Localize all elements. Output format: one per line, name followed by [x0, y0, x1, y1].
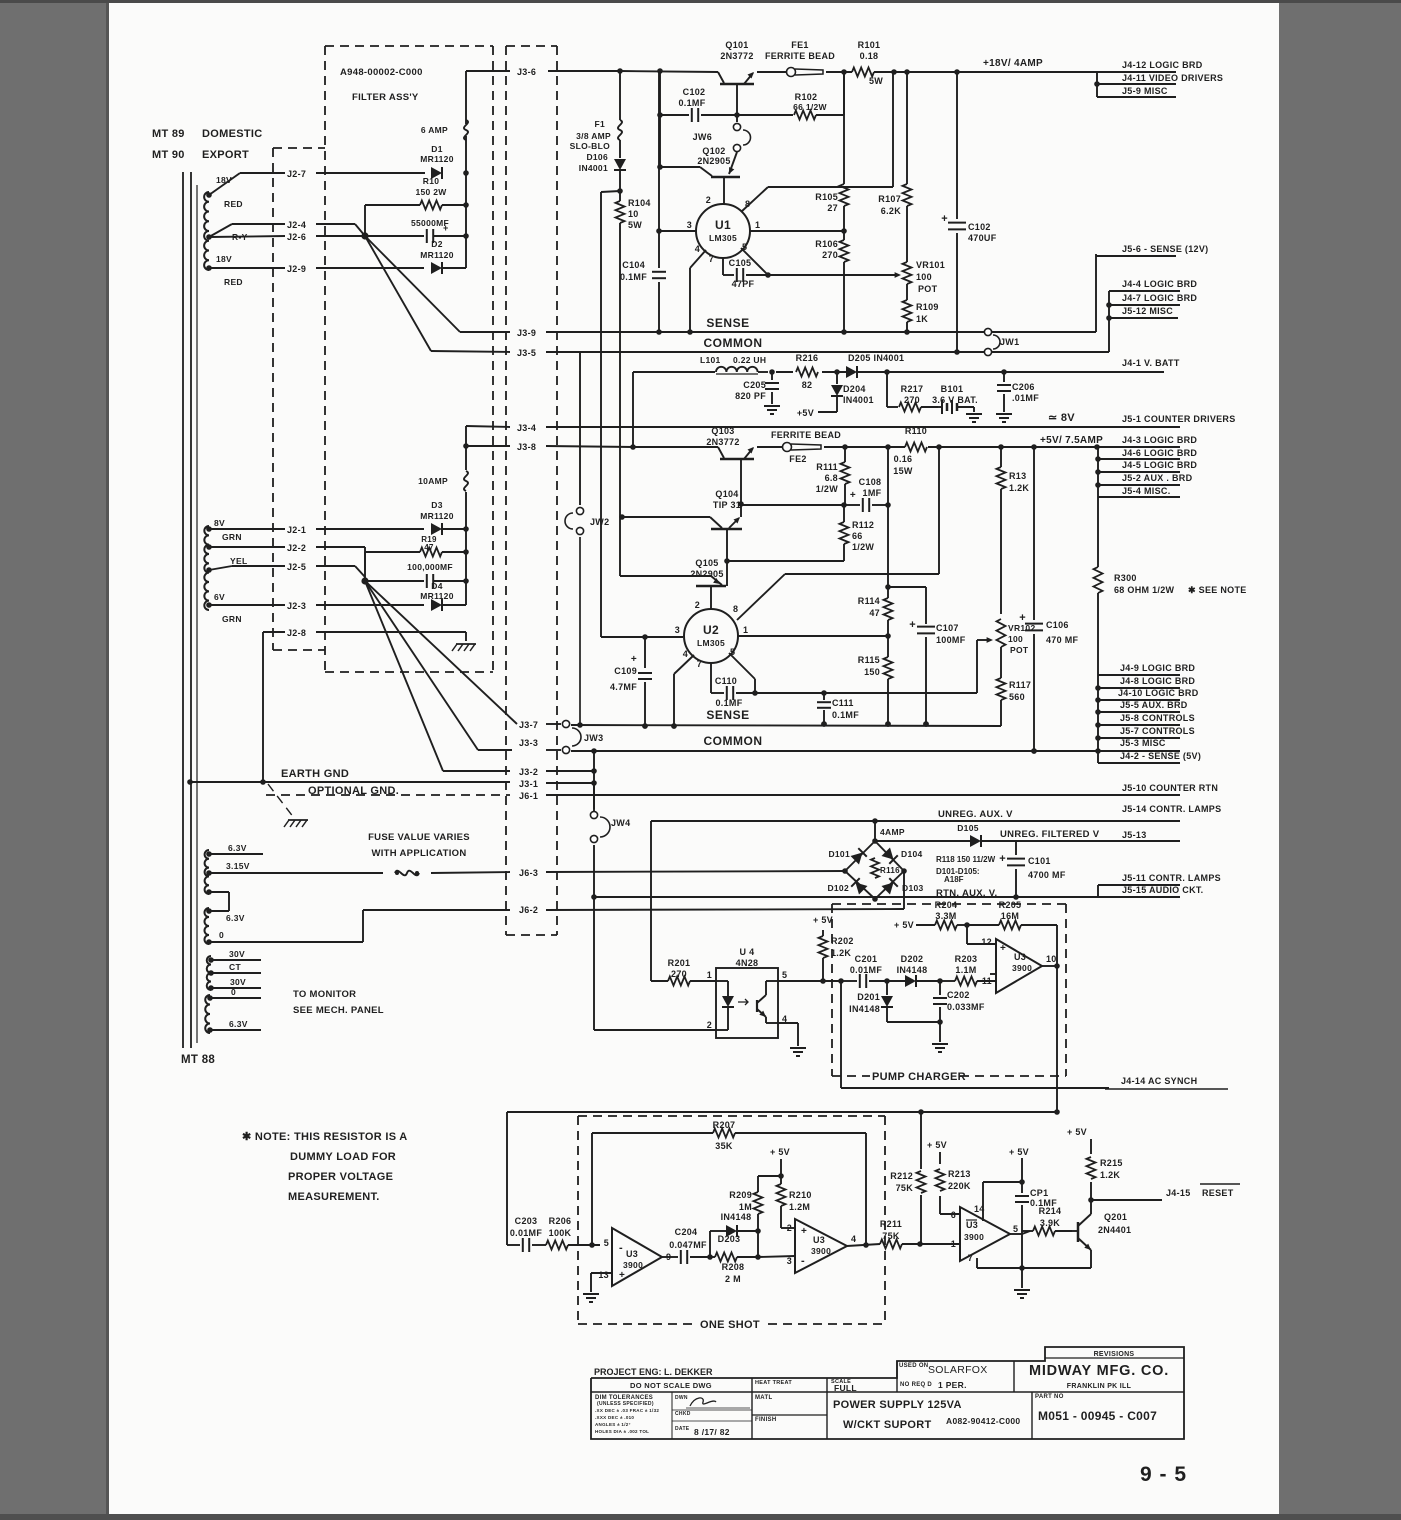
- wire U3d pin14: [983, 1179, 1025, 1221]
- svg-text:5: 5: [1013, 1224, 1018, 1234]
- label 6.3V b: [226, 913, 245, 923]
- svg-text:IN4148: IN4148: [721, 1212, 752, 1222]
- wire Q102 chain vertical: [659, 71, 661, 167]
- svg-text:10AMP: 10AMP: [418, 476, 448, 486]
- svg-text:270: 270: [822, 250, 838, 260]
- wire J3 gnd bracket: [591, 751, 597, 813]
- svg-text:75K: 75K: [882, 1231, 900, 1241]
- svg-text:3.9K: 3.9K: [1040, 1218, 1060, 1228]
- inductor L101 0.22UH: [700, 355, 766, 374]
- chassis ground earth: [268, 784, 308, 827]
- label A948-00002-C000: [340, 67, 423, 78]
- svg-text:REVISIONS: REVISIONS: [1094, 1351, 1135, 1358]
- label MT 90 EXPORT: [152, 149, 249, 161]
- svg-text:OPTIONAL GND.: OPTIONAL GND.: [308, 785, 399, 797]
- wire UNREG AUX V: [651, 818, 1180, 824]
- diode D201 IN4148: [849, 981, 893, 1022]
- wire junction to J3-3: [365, 581, 478, 750]
- label J2-2: [287, 543, 306, 553]
- title block: [591, 1347, 1184, 1439]
- transistor Q101 2N3772: [718, 40, 754, 84]
- svg-text:R117: R117: [1009, 680, 1031, 690]
- label J4-10 LOGIC BRD: [1118, 688, 1199, 698]
- label J2-3: [287, 601, 306, 611]
- resistor R106 270: [815, 231, 848, 335]
- label J2-9: [287, 264, 306, 274]
- svg-text:COMMON: COMMON: [704, 336, 763, 350]
- resistor R107 6.2K: [878, 72, 911, 262]
- wire Q101 base: [736, 84, 738, 122]
- svg-text:6.3V: 6.3V: [229, 1019, 248, 1029]
- svg-text:J4-4 LOGIC BRD: J4-4 LOGIC BRD: [1122, 279, 1197, 289]
- svg-text:COMMON: COMMON: [704, 734, 763, 748]
- capacitor C204 0.047MF: [669, 1227, 713, 1264]
- svg-text:3/8 AMP: 3/8 AMP: [576, 131, 611, 141]
- svg-text:J5-12 MISC: J5-12 MISC: [1122, 306, 1173, 316]
- wire U2 pin4: [671, 655, 694, 729]
- wire lower bracket: [1095, 675, 1180, 763]
- label J5-11 CONTR.LAMPS: [1122, 873, 1221, 883]
- node Q102 chain top: [657, 68, 663, 74]
- transformer T1 secondary winding (18V): [204, 192, 212, 271]
- label J3-4: [517, 423, 536, 433]
- svg-text:J3-3: J3-3: [519, 738, 538, 748]
- svg-text:8 /17/ 82: 8 /17/ 82: [694, 1427, 730, 1437]
- capacitor C205 820PF: [735, 372, 780, 414]
- svg-text:C206: C206: [1012, 382, 1035, 392]
- svg-text:U3: U3: [626, 1249, 638, 1259]
- svg-text:TO MONITOR: TO MONITOR: [293, 989, 356, 1000]
- svg-text:D205 IN4001: D205 IN4001: [848, 353, 904, 363]
- svg-text:220K: 220K: [948, 1181, 971, 1191]
- svg-text:2: 2: [706, 195, 711, 205]
- svg-text:IN4001: IN4001: [579, 163, 608, 173]
- wire J6-1 / J5-10 row: [266, 794, 1180, 796]
- resistor R201 270: [651, 958, 716, 986]
- label SEE MECH PANEL: [293, 1005, 384, 1016]
- wire J3-2 row: [443, 770, 594, 772]
- label +5V/7.5AMP: [1040, 435, 1103, 446]
- svg-text:J5-10 COUNTER RTN: J5-10 COUNTER RTN: [1122, 783, 1218, 793]
- svg-text:1/2W: 1/2W: [816, 484, 838, 494]
- svg-text:2: 2: [695, 600, 700, 610]
- jumper JW6: [693, 123, 751, 151]
- capacitor C108 1MF: [846, 477, 891, 512]
- label EARTH GND: [281, 768, 349, 780]
- svg-text:-: -: [801, 1255, 805, 1267]
- label J3-7: [519, 720, 538, 730]
- label R-Y: [232, 232, 248, 242]
- wire +5V bracket: [1094, 444, 1180, 497]
- svg-text:270: 270: [904, 395, 920, 405]
- svg-text:3: 3: [675, 625, 680, 635]
- resistor R10: [365, 176, 466, 236]
- wire J4-11 bracket: [1094, 72, 1176, 97]
- svg-text:PUMP CHARGER: PUMP CHARGER: [872, 1071, 966, 1083]
- bridge rectifier D101-D104: [842, 838, 907, 902]
- svg-text:82: 82: [802, 380, 813, 390]
- svg-text:SENSE: SENSE: [706, 316, 749, 330]
- wire U1 pin1: [750, 228, 847, 234]
- resistor R208 2M: [710, 1253, 761, 1285]
- svg-text:ANGLES ± 1/2°: ANGLES ± 1/2°: [595, 1422, 631, 1427]
- svg-text:RED: RED: [224, 199, 243, 209]
- svg-text:B101: B101: [941, 384, 964, 394]
- svg-text:1.2K: 1.2K: [1009, 483, 1029, 493]
- svg-text:6.3V: 6.3V: [228, 843, 247, 853]
- svg-text:2: 2: [787, 1223, 792, 1233]
- wire SENSE line: [460, 329, 984, 335]
- label 8V GRN: [214, 518, 242, 542]
- svg-text:C109: C109: [614, 666, 637, 676]
- svg-text:R107: R107: [878, 194, 901, 204]
- svg-text:Q105: Q105: [695, 558, 718, 568]
- svg-text:6: 6: [951, 1210, 956, 1220]
- svg-text:1.1M: 1.1M: [955, 965, 976, 975]
- resistor R104 10 5W: [616, 191, 651, 516]
- svg-text:J6-1: J6-1: [519, 791, 538, 801]
- label J3-2: [519, 767, 538, 777]
- svg-text:FULL: FULL: [834, 1383, 857, 1393]
- label J4-11 VIDEO DRIVERS: [1122, 73, 1223, 83]
- wire U4 pin5 row: [778, 978, 844, 984]
- wire junction to J3-2: [365, 581, 443, 771]
- resistor R115 150: [858, 636, 893, 727]
- svg-text:POT: POT: [1010, 645, 1029, 655]
- svg-text:A948-00002-C000: A948-00002-C000: [340, 67, 423, 78]
- svg-text:CP1: CP1: [1030, 1188, 1048, 1198]
- svg-text:J3-6: J3-6: [517, 67, 536, 77]
- svg-text:MEASUREMENT.: MEASUREMENT.: [288, 1191, 380, 1203]
- svg-text:66 1/2W: 66 1/2W: [793, 102, 827, 112]
- wire J2-8: [263, 632, 466, 641]
- wire 8V row J3-4: [466, 426, 1180, 427]
- label J5-15 AUDIO CKT: [1122, 885, 1203, 895]
- label J3-6: [517, 67, 536, 77]
- svg-text:FUSE VALUE VARIES: FUSE VALUE VARIES: [368, 832, 470, 843]
- svg-text:J5-7 CONTROLS: J5-7 CONTROLS: [1120, 726, 1195, 736]
- svg-text:4: 4: [851, 1234, 856, 1244]
- svg-text:+: +: [1019, 612, 1026, 624]
- resistor R205 16M: [967, 900, 1057, 930]
- label J2-8: [287, 628, 306, 638]
- label J3-5: [517, 348, 536, 358]
- label TO MONITOR: [293, 989, 356, 1000]
- svg-text:D202: D202: [901, 954, 924, 964]
- svg-text:U1: U1: [715, 218, 731, 232]
- svg-text:100,000MF: 100,000MF: [407, 562, 453, 572]
- svg-text:✱ NOTE: THIS RESISTOR IS A: ✱ NOTE: THIS RESISTOR IS A: [242, 1131, 408, 1143]
- resistor R214 3.9K: [1022, 1206, 1072, 1236]
- label J4-14 AC SYNCH: [1105, 1076, 1228, 1089]
- wire VR102 wiper: [824, 637, 993, 693]
- wire one shot +5V: [770, 1147, 790, 1179]
- svg-text:UNREG. FILTERED V: UNREG. FILTERED V: [1000, 829, 1100, 840]
- svg-text:C106: C106: [1046, 620, 1069, 630]
- svg-text:R111: R111: [816, 462, 838, 472]
- svg-text:100: 100: [916, 272, 932, 282]
- resistor R114 47: [858, 587, 893, 639]
- left dashed box: [273, 148, 325, 650]
- svg-text:J5-13: J5-13: [1122, 830, 1147, 840]
- resistor R102 66 1/2W: [739, 69, 847, 119]
- svg-text:D204: D204: [843, 384, 866, 394]
- svg-text:18V: 18V: [216, 254, 232, 264]
- label J2-6: [287, 232, 306, 242]
- wire UNREG to R201: [650, 821, 652, 981]
- svg-text:+5V/ 7.5AMP: +5V/ 7.5AMP: [1040, 435, 1103, 446]
- svg-text:3.15V: 3.15V: [226, 861, 250, 871]
- transistor Q201 2N4401: [1072, 1200, 1131, 1268]
- diode D3 MR1120: [420, 500, 469, 535]
- label +18V / 4AMP: [983, 58, 1043, 69]
- svg-text:-: -: [619, 1242, 623, 1254]
- wire U3b output: [662, 1256, 678, 1258]
- label SENSE: [706, 316, 749, 330]
- wire U2 pin8 to R110: [737, 447, 939, 620]
- svg-text:+: +: [443, 223, 449, 233]
- svg-text:3: 3: [687, 220, 692, 230]
- svg-text:J4-2 - SENSE (5V): J4-2 - SENSE (5V): [1120, 751, 1201, 761]
- svg-text:DO NOT SCALE DWG: DO NOT SCALE DWG: [630, 1381, 712, 1390]
- svg-text:C203: C203: [515, 1216, 538, 1226]
- label J4-8 LOGIC BRD: [1120, 676, 1195, 686]
- capacitor C1 55000MF: [368, 218, 466, 243]
- wire rail Q101 to FE1: [757, 71, 786, 73]
- transformer T3 winding 0/6.3: [205, 995, 213, 1033]
- label 30V b: [211, 977, 261, 988]
- svg-text:+ 5V: + 5V: [1009, 1147, 1029, 1157]
- svg-text:2: 2: [707, 1020, 712, 1030]
- label J3-3: [519, 738, 538, 748]
- label J5-14 CONTR. LAMPS: [1122, 804, 1221, 814]
- node junction A (filter input): [361, 232, 368, 239]
- svg-text:L101: L101: [700, 355, 721, 365]
- svg-text:R207: R207: [713, 1120, 736, 1130]
- svg-text:0.16: 0.16: [894, 454, 913, 464]
- capacitor CP1 0.1MF: [1015, 1182, 1057, 1271]
- svg-text:F1: F1: [594, 119, 605, 129]
- svg-text:JW3: JW3: [584, 733, 603, 743]
- svg-text:560: 560: [1009, 692, 1025, 702]
- label J4-15 RESET: [1166, 1184, 1240, 1198]
- svg-text:MR1120: MR1120: [420, 154, 453, 164]
- label J5-13 AUDIO CKT: [1122, 830, 1147, 840]
- svg-text:GRN: GRN: [222, 614, 242, 624]
- pin 4 label U2: [683, 649, 688, 659]
- resistor R212 75K: [890, 1112, 925, 1244]
- svg-text:47PF: 47PF: [732, 279, 755, 289]
- svg-text:8V: 8V: [214, 518, 225, 528]
- pin 4 label U1: [695, 244, 700, 254]
- svg-text:MT 90: MT 90: [152, 149, 185, 161]
- svg-text:2N2905: 2N2905: [697, 156, 730, 166]
- svg-text:PROPER VOLTAGE: PROPER VOLTAGE: [288, 1171, 393, 1183]
- wire +5V rail: [824, 444, 1096, 450]
- svg-text:47: 47: [869, 608, 880, 618]
- svg-text:R110: R110: [905, 426, 927, 436]
- svg-text:1: 1: [951, 1239, 956, 1249]
- pin 2 label U2: [695, 600, 700, 610]
- pin 3 label U1: [687, 220, 692, 230]
- svg-text:J5-8 CONTROLS: J5-8 CONTROLS: [1120, 713, 1195, 723]
- node J3-4 bus corner: [465, 445, 467, 447]
- wire U1 pin7 / capacitor C105 47PF: [723, 258, 768, 289]
- svg-text:C101: C101: [1028, 856, 1051, 866]
- wire J2-2: [209, 547, 365, 570]
- svg-text:5: 5: [604, 1238, 609, 1248]
- svg-text:MT 88: MT 88: [181, 1054, 215, 1066]
- svg-text:7: 7: [697, 659, 702, 669]
- wire 6.3 link: [209, 892, 229, 911]
- svg-text:0.1MF: 0.1MF: [620, 272, 647, 282]
- svg-text:4AMP: 4AMP: [880, 827, 905, 837]
- J3 connector dashed column: [506, 46, 557, 935]
- wire C202 D201 gnd: [887, 1019, 948, 1052]
- svg-text:WITH APPLICATION: WITH APPLICATION: [371, 848, 466, 859]
- svg-text:12: 12: [981, 937, 992, 947]
- svg-text:R202: R202: [831, 936, 854, 946]
- svg-text:270: 270: [671, 969, 687, 979]
- svg-text:J6-2: J6-2: [519, 905, 538, 915]
- svg-text:R112: R112: [852, 520, 874, 530]
- wire AC synch drop: [841, 981, 1109, 1088]
- wire L101 feed: [632, 372, 634, 447]
- svg-text:C104: C104: [622, 260, 645, 270]
- svg-text:FE2: FE2: [789, 454, 806, 464]
- svg-text:R208: R208: [722, 1262, 745, 1272]
- resistor R206 100K: [546, 1216, 600, 1250]
- wire J5-9 line: [1097, 96, 1176, 98]
- wire Q104 to Q105: [724, 529, 730, 586]
- svg-text:C201: C201: [855, 954, 878, 964]
- svg-text:+: +: [801, 1226, 807, 1237]
- svg-text:U 4: U 4: [740, 947, 755, 957]
- svg-text:A082-90412-C000: A082-90412-C000: [946, 1416, 1020, 1426]
- svg-text:VR101: VR101: [916, 260, 945, 270]
- svg-text:U3: U3: [813, 1235, 825, 1245]
- svg-text:J3-5: J3-5: [517, 348, 536, 358]
- transistor Q105 2N2905: [621, 558, 726, 609]
- svg-text:1: 1: [743, 625, 748, 635]
- svg-text:R216: R216: [796, 353, 819, 363]
- capacitor C101 4700MF: [999, 841, 1066, 900]
- svg-text:+: +: [909, 619, 916, 631]
- svg-text:100: 100: [1008, 634, 1023, 644]
- svg-text:C105: C105: [729, 258, 752, 268]
- pin 8 label U1: [745, 199, 750, 209]
- svg-text:3.6 V BAT.: 3.6 V BAT.: [932, 395, 978, 405]
- svg-text:J2-9: J2-9: [287, 264, 306, 274]
- svg-text:D2: D2: [431, 239, 442, 249]
- svg-text:W/CKT SUPORT: W/CKT SUPORT: [843, 1419, 932, 1431]
- label approx 8V: [1048, 412, 1075, 424]
- svg-text:+: +: [619, 1270, 625, 1281]
- label J3-9: [517, 328, 536, 338]
- label J4-1 V.BATT: [1122, 358, 1180, 368]
- svg-text:0.1MF: 0.1MF: [832, 710, 859, 720]
- svg-text:C204: C204: [675, 1227, 698, 1237]
- wire bridge right to J6-2: [903, 871, 905, 909]
- capacitor C202 0.033MF: [933, 981, 985, 1022]
- svg-text:R104: R104: [628, 198, 651, 208]
- label 18V RED top: [216, 175, 243, 209]
- wire one shot top: [507, 1109, 1057, 1115]
- svg-text:D106: D106: [586, 152, 608, 162]
- wire pump +5V row: [894, 900, 970, 930]
- resistor R116: [871, 858, 900, 878]
- svg-text:3900: 3900: [811, 1246, 831, 1256]
- svg-text:R203: R203: [955, 954, 978, 964]
- svg-text:J4-12 LOGIC BRD: J4-12 LOGIC BRD: [1122, 60, 1203, 70]
- jumper JW1: [984, 328, 1019, 355]
- label COMMON: [704, 336, 763, 350]
- svg-text:0.18: 0.18: [860, 51, 879, 61]
- transformer core: [183, 172, 197, 1048]
- pin 7 label U2: [697, 659, 702, 669]
- wire R104 to Q105 base: [620, 516, 621, 576]
- svg-text:SEE MECH. PANEL: SEE MECH. PANEL: [293, 1005, 384, 1016]
- wire Q103 base to R111 row: [741, 502, 847, 508]
- svg-text:1.2M: 1.2M: [789, 1202, 810, 1212]
- svg-text:R102: R102: [795, 92, 818, 102]
- resistor R211 75K: [880, 1219, 923, 1249]
- label ONE SHOT: [700, 1319, 760, 1331]
- wire U3d output: [1010, 1231, 1030, 1234]
- svg-text:D104: D104: [901, 849, 923, 859]
- svg-text:+: +: [631, 654, 637, 665]
- wire filter bus top: [463, 71, 469, 268]
- svg-text:A18F: A18F: [944, 875, 964, 884]
- label 30V a: [211, 949, 261, 960]
- svg-text:7: 7: [968, 1253, 973, 1263]
- svg-text:Q101: Q101: [725, 40, 748, 50]
- label J4-3 LOGIC BRD: [1122, 435, 1197, 445]
- label J5-3 MISC: [1120, 738, 1166, 748]
- diode D202 IN4148: [887, 954, 943, 987]
- resistor R112 66 1/2W: [840, 505, 875, 561]
- wire R211 to U3d: [920, 1243, 960, 1245]
- svg-text:R204: R204: [935, 900, 958, 910]
- svg-text:15W: 15W: [893, 466, 913, 476]
- capacitor C206 .01MF: [996, 372, 1039, 422]
- label J5-8 CONTROLS: [1120, 713, 1195, 723]
- svg-text:J3-4: J3-4: [517, 423, 536, 433]
- battery B101 3.6V BAT: [932, 384, 982, 422]
- svg-text:4700 MF: 4700 MF: [1028, 870, 1066, 880]
- svg-text:R210: R210: [789, 1190, 812, 1200]
- wire J2-6: [209, 236, 362, 237]
- ferrite bead FE1: [765, 40, 835, 77]
- resistor R216 82: [796, 353, 819, 390]
- svg-text:J5-11 CONTR. LAMPS: J5-11 CONTR. LAMPS: [1122, 873, 1221, 883]
- wire COMMON to J4-4 bracket: [992, 291, 1109, 352]
- svg-text:SOLARFOX: SOLARFOX: [928, 1364, 988, 1376]
- svg-text:UNREG. AUX. V: UNREG. AUX. V: [938, 809, 1013, 820]
- label J6-1: [519, 791, 538, 801]
- pin 5 label U1: [742, 242, 747, 252]
- wire U3d pin7 row: [968, 1253, 1091, 1298]
- svg-text:470 MF: 470 MF: [1046, 635, 1079, 645]
- svg-text:R209: R209: [729, 1190, 752, 1200]
- svg-text:R205: R205: [999, 900, 1022, 910]
- capacitor C103 470UF: [941, 72, 996, 355]
- resistor R209 1M: [729, 1176, 781, 1231]
- svg-text:IN4148: IN4148: [849, 1004, 880, 1014]
- svg-text:0.033MF: 0.033MF: [947, 1002, 985, 1012]
- wire +18V input rail: [466, 71, 718, 72]
- transformer T2 winding (8V): [204, 526, 211, 610]
